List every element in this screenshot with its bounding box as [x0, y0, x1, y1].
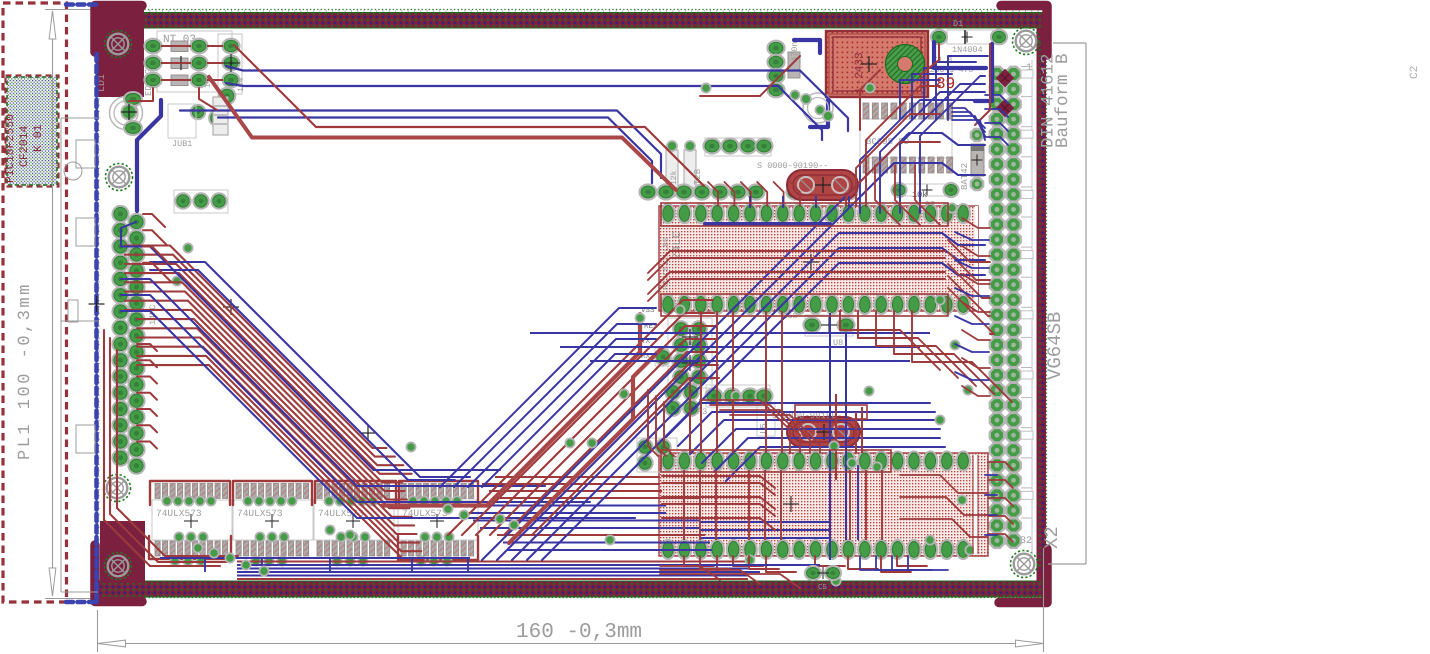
pad small [209, 110, 225, 126]
corner bracket top-left [95, 6, 142, 53]
pad R8 [219, 88, 236, 105]
wire red crystal Q2 risers [855, 412, 857, 453]
wire blue BC695 to X2 [952, 108, 985, 128]
wire red right arm bundle [448, 300, 713, 535]
wire blue horizontal top 3 [180, 111, 661, 179]
wire red bottom mid [660, 566, 720, 580]
wire jogs X2 mid [962, 218, 990, 228]
IC5 pad row top [661, 204, 675, 223]
wire blue IC7 bottom right bundle [860, 556, 900, 570]
wire blue under IC7 [700, 521, 830, 523]
wire red below IC7 to bottom bar [684, 556, 714, 566]
jumper JP1 pads [668, 318, 712, 388]
crystal Q1 [787, 170, 858, 200]
svg-text:PL1 100 -0,3mm: PL1 100 -0,3mm [16, 282, 35, 460]
wire thick blue from module [137, 100, 161, 211]
mounting hole bottom-left [105, 553, 132, 580]
wire blue horizontal top 1 [226, 66, 848, 131]
pads cluster mid [706, 385, 770, 407]
board outline (dotted edge) [98, 10, 1047, 598]
IC2 BC695 SOIC [860, 119, 952, 158]
wire blue horizontals middle right [530, 332, 930, 334]
IC4 74ULX573 [398, 500, 478, 540]
wire red fan from PL1 [137, 246, 387, 449]
dashed outline module left [3, 3, 67, 602]
jumper P3 pads [665, 384, 681, 400]
svg-text:BAT42: BAT42 [960, 163, 970, 190]
svg-text:K 01: K 01 [32, 124, 45, 152]
IC7 pad row bottom [661, 540, 675, 559]
component D2 outline [168, 104, 196, 138]
dashed blue outline [66, 2, 96, 7]
wire red JP verticals [648, 390, 658, 456]
pads left of relay [767, 41, 784, 56]
red frame around IC3 pads [315, 481, 396, 503]
mounting hole left lower [104, 475, 131, 502]
via diamonds X2 [996, 69, 1014, 87]
wire blue top right cluster [900, 80, 940, 120]
wire red inside IC7 verticals [683, 470, 685, 540]
wire blue horizontal top 2 [226, 83, 822, 140]
svg-text:1N4004: 1N4004 [952, 45, 983, 55]
vias scattered middle [701, 83, 710, 92]
module NT 03 outline [157, 31, 232, 92]
wire blue right of IC7 [985, 474, 997, 476]
origin cross mid [360, 432, 376, 434]
wire red top right cluster [875, 165, 900, 225]
LED block LD1 [96, 8, 144, 97]
small pads under SOIC rows [162, 496, 171, 505]
wire thick blue relay [810, 100, 828, 127]
svg-text:VG64SB: VG64SB [1044, 312, 1066, 380]
wire red top right riser [860, 70, 880, 130]
connector PL1 silkscreen outline [60, 118, 62, 592]
wire red zigzag below NT03 [129, 88, 153, 101]
connector PL1 pads [112, 206, 128, 222]
diode D3 BAT42 [971, 129, 983, 141]
resistors pair above IC5 [666, 150, 678, 188]
wire red IC7 right half [849, 470, 851, 540]
red frame IC5 top row [661, 203, 948, 226]
dimension 160 -0,3mm bottom [97, 610, 99, 652]
svg-text:X2: X2 [1041, 526, 1063, 549]
wire red diagonal top 1 [234, 45, 704, 186]
relay RL1 body [826, 31, 928, 97]
svg-text:JUB1: JUB1 [172, 139, 192, 149]
via on blue bend [183, 243, 192, 252]
trimmer P1 rings [803, 93, 833, 123]
svg-text:24LC: 24LC [670, 231, 684, 260]
IC5 pad row bottom [661, 295, 675, 314]
pad small2 [191, 105, 206, 120]
mounting hole bottom-right [1011, 551, 1038, 578]
wire red lower-left pads elbows [137, 344, 157, 351]
inductor L5 [757, 404, 775, 436]
wire red diagonal top thick [209, 77, 676, 190]
wire red NT03 links [161, 45, 191, 47]
wire red around crystal Q2 [700, 400, 790, 453]
svg-text:P7: P7 [925, 200, 935, 210]
wire stubs 573 to bundle [204, 557, 206, 572]
wire thick blue D1 [975, 44, 992, 101]
corner bracket bottom-right [999, 549, 1047, 603]
wire red IC5 top feeds [708, 182, 718, 206]
inductor L2C striped [213, 97, 228, 135]
red frame around IC2 pads [233, 481, 312, 505]
red frame around IC1 pads [150, 481, 230, 505]
svg-text:PIC18F2550: PIC18F2550 [4, 114, 17, 183]
origin cross pads left [223, 306, 239, 308]
corner bracket bottom-left [95, 545, 142, 602]
IC2 74ULX573 [233, 500, 313, 540]
IC1 74ULX573 [152, 500, 232, 540]
svg-text:C2: C2 [1409, 66, 1421, 79]
corner bracket top-right [1001, 6, 1047, 56]
wire red stubs pads [124, 245, 138, 247]
wire blue stubs IC5 top [749, 196, 751, 208]
IC7 hatched body [659, 453, 988, 556]
module NT03 pads col3 [222, 39, 239, 54]
wire red left edge verticals [104, 330, 220, 566]
mounting hole top-left [105, 31, 132, 58]
wire red elbows right of IC5 [840, 311, 940, 370]
origin cross left [89, 303, 105, 305]
wire blue fan crossing [121, 247, 500, 471]
pads row above IC5 [705, 138, 771, 156]
vias right column area [947, 203, 956, 212]
wire blue right arm bundle [482, 133, 985, 560]
mounting hole top-right [1013, 28, 1040, 55]
wire red pl1 to ICs upper fan [143, 214, 165, 227]
svg-text:89: 89 [936, 75, 955, 93]
capacitor C8 [805, 315, 853, 336]
svg-text:160 -0,3mm: 160 -0,3mm [516, 621, 642, 644]
wire red bundle IC5 right to X2 [948, 240, 990, 262]
ground plane bar right [1037, 28, 1047, 581]
dimension PL1 100 -0,3mm [52, 11, 54, 596]
wire horizontal band mid [495, 476, 660, 478]
svg-text:74ULX573: 74ULX573 [156, 508, 202, 519]
pad RX single [655, 349, 671, 365]
svg-text:D1: D1 [953, 19, 963, 29]
svg-text:R3: R3 [697, 407, 707, 417]
svg-text:74ULX573: 74ULX573 [237, 508, 283, 519]
crystal Q2 [787, 417, 860, 447]
wire thick blue above IC5 [705, 222, 830, 226]
wire thick red diagonal 1 [382, 314, 640, 506]
wire blue diag pair mid [150, 262, 470, 477]
X2 wing boxes [1021, 70, 1033, 78]
resistor R5 smd [171, 41, 188, 52]
wire blue below IC7 [700, 564, 820, 566]
connector X2 pin rows [990, 67, 1004, 81]
wire bottom long bundle [237, 560, 748, 562]
red frame IC5 bottom row [661, 294, 948, 316]
mounting hole left upper [106, 164, 133, 191]
svg-text:470n: 470n [790, 42, 800, 62]
hatched block PIC18F2550 [7, 77, 57, 185]
IC5 24LCxx hatched body [659, 206, 978, 311]
svg-text:Bauform B: Bauform B [1053, 53, 1073, 148]
capacitor C9 [110, 97, 143, 130]
wire blue horizontal top 4 [218, 118, 652, 184]
red frame IC7 top row [661, 450, 891, 472]
capacitor C5 below IC7 [805, 566, 821, 580]
wire red inside IC7 horizontals [662, 476, 775, 488]
connector X2 outline [1085, 43, 1087, 564]
wire blue verticals mid [829, 313, 831, 560]
IC7 white slit [974, 455, 977, 554]
pads triple bottom [174, 190, 228, 213]
module NT03 pads col1 [144, 39, 161, 54]
wire blue to RES TX RX [440, 308, 656, 487]
wire blue elbows top right [860, 100, 985, 213]
IC3 74ULX573 [314, 500, 394, 540]
wire red drops IC5 to IC7 [700, 311, 702, 453]
pads small cluster left low [637, 439, 652, 454]
IC7 pad row top [661, 451, 675, 470]
svg-text:CF2014: CF2014 [18, 125, 31, 167]
ground plane bar bottom [99, 581, 1045, 597]
wire blue left column link [121, 222, 136, 246]
wire red right of IC7 [988, 462, 1013, 470]
ground plane bar top [99, 13, 1045, 29]
LED block LD2 bottom-left [100, 521, 145, 583]
red frame around IC4 pads [399, 481, 478, 503]
wire thick red diagonal 2 [509, 350, 660, 543]
svg-text:C5: C5 [818, 583, 828, 592]
wire red verticals mid [835, 394, 837, 480]
resistor 10k [905, 184, 945, 196]
wire red inside IC5 [648, 251, 945, 273]
module NT03 pads col2 [190, 39, 207, 54]
relay coil pad (hatched green) [886, 45, 925, 84]
